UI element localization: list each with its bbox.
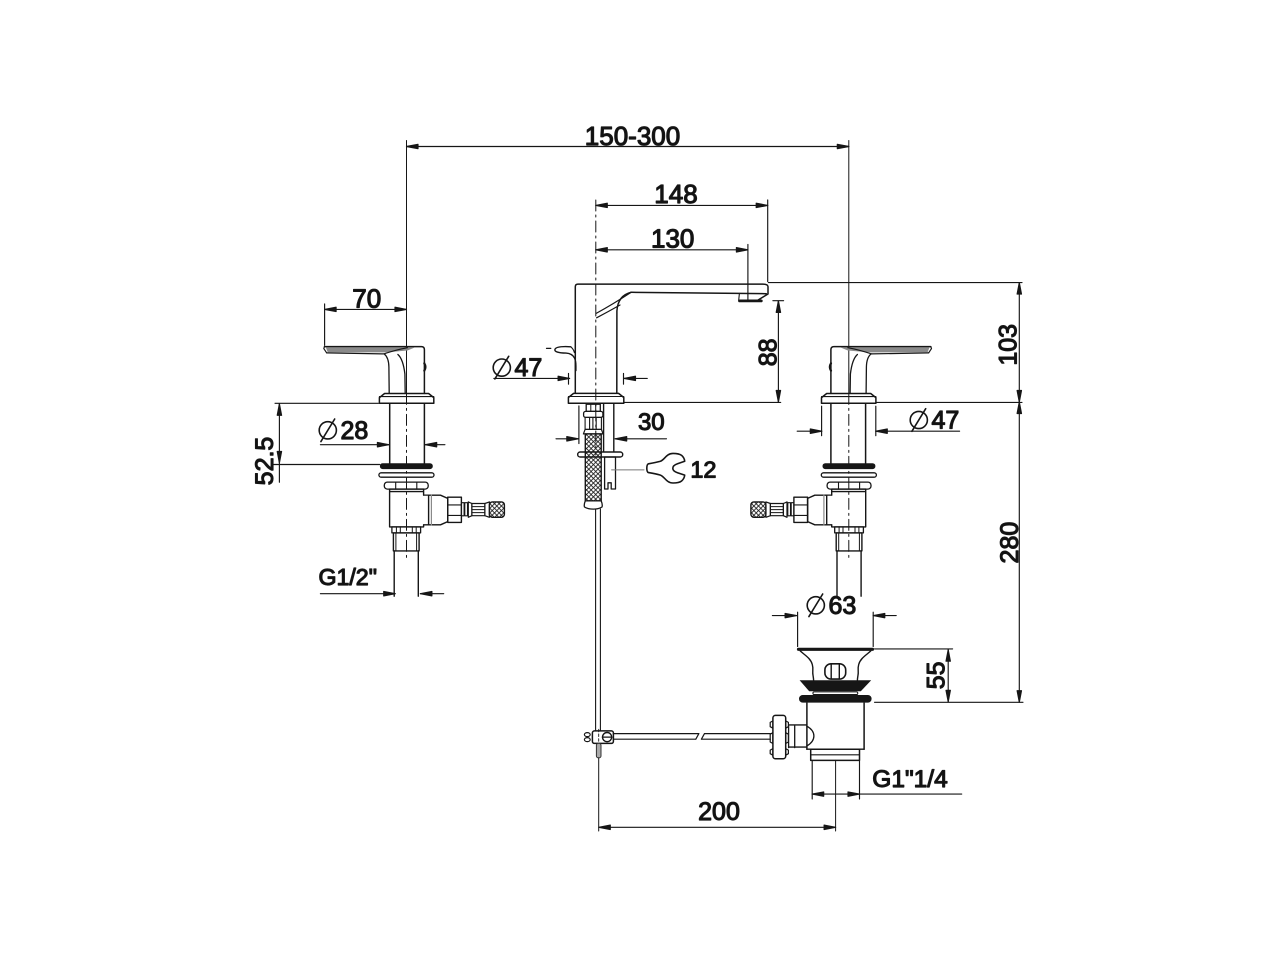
svg-text:28: 28 xyxy=(341,417,369,445)
hose hex adapter xyxy=(448,497,462,522)
drain rod collar xyxy=(789,726,795,748)
spout fixing stud right xyxy=(613,404,615,452)
hose flare left xyxy=(468,502,472,517)
deck reference line right of right valve xyxy=(876,401,1022,403)
valve fastening nut xyxy=(384,482,428,489)
drain tail centerline xyxy=(835,760,837,831)
dimension 200 xyxy=(599,826,836,828)
svg-text:47: 47 xyxy=(932,407,960,435)
hose flare right xyxy=(485,502,490,517)
spout hose bottom flare xyxy=(584,501,602,509)
valve washer xyxy=(379,473,434,477)
spout hose crimp flare xyxy=(583,429,603,434)
dimensions xyxy=(251,121,1024,830)
dimension 55 xyxy=(947,650,949,702)
dimension diameter 63 (drain flange) xyxy=(772,615,796,617)
svg-text:150-300: 150-300 xyxy=(585,121,680,151)
spout hose crimp collar xyxy=(584,411,603,417)
valve o-ring seal xyxy=(380,463,433,469)
handle neck front curve xyxy=(384,354,389,393)
handle centerline / extension line xyxy=(406,141,408,394)
top reference line to 103 xyxy=(768,282,1022,284)
spout mixer lever tab xyxy=(555,347,576,371)
spout lever tab center dash xyxy=(547,347,551,349)
spout braided hose xyxy=(585,434,601,501)
spout hose compression olive xyxy=(586,404,600,411)
drain bottom step xyxy=(807,748,864,750)
spout body outline xyxy=(575,284,768,393)
dimension 30 xyxy=(556,438,578,440)
clamp screw xyxy=(603,733,612,742)
drain pull rod (vertical) xyxy=(596,509,601,731)
svg-text:130: 130 xyxy=(651,223,694,253)
spout arm underside xyxy=(631,292,766,293)
wrench symbol 12 xyxy=(612,469,644,471)
spout hose crimp body xyxy=(585,417,601,429)
spout base flange xyxy=(568,393,623,403)
drain top flange (bold) xyxy=(799,648,873,651)
valve escutcheon flange xyxy=(379,394,433,404)
drain G1-1/4 threaded collar xyxy=(811,749,860,760)
drain rod wing nut xyxy=(773,715,786,758)
svg-text:280: 280 xyxy=(996,522,1024,564)
dimension 52.5 xyxy=(278,404,280,483)
svg-text:63: 63 xyxy=(829,592,857,620)
valve side port shoulder xyxy=(424,495,429,525)
drain side port xyxy=(789,725,807,747)
pop-up waste drain assembly xyxy=(584,649,872,831)
svg-text:30: 30 xyxy=(638,409,665,436)
drain body xyxy=(807,703,864,749)
extension line below rod xyxy=(598,758,600,831)
horizontal pull rod left segment xyxy=(613,734,699,740)
right side valve (mirrored copy) xyxy=(751,141,932,597)
spout flange bevel line xyxy=(568,396,623,398)
spout lever tab inner line xyxy=(571,347,575,353)
pull rod clamp block xyxy=(592,731,613,744)
left side valve (cold/hot handle) xyxy=(324,141,505,597)
handle blade tip chamfer xyxy=(324,347,327,353)
drain funnel right side xyxy=(857,651,870,680)
horizontal pull rod right segment xyxy=(701,734,770,740)
handle blade shaded band xyxy=(326,347,415,352)
hose ribs xyxy=(461,503,464,516)
svg-text:70: 70 xyxy=(352,284,381,314)
svg-text:148: 148 xyxy=(654,179,697,209)
svg-text:200: 200 xyxy=(698,798,740,826)
dimension 280 xyxy=(1018,402,1020,702)
svg-text:52.5: 52.5 xyxy=(251,437,279,486)
dimension 103 xyxy=(1018,283,1020,402)
drain funnel left side xyxy=(800,651,813,680)
handle blade hidden top curve xyxy=(384,348,408,354)
svg-text:G1"1/4: G1"1/4 xyxy=(872,766,947,793)
clamp butterfly xyxy=(584,733,590,737)
dimension G1-1/4 xyxy=(812,793,859,795)
handle blade bottom edge xyxy=(327,353,384,354)
valve flange bevel line xyxy=(379,396,433,398)
spout aerator outlet face xyxy=(740,299,762,302)
dimension diameter 47 (spout base) xyxy=(494,377,570,379)
dimension 148 xyxy=(596,204,768,206)
valve bottom collar xyxy=(392,527,421,533)
dimension G1/2 xyxy=(320,593,395,595)
dimension 70 xyxy=(325,308,407,310)
drain port inner arc xyxy=(807,726,814,746)
valve body xyxy=(390,489,424,527)
dimension 88 xyxy=(777,301,779,402)
dimension 130 xyxy=(596,249,748,251)
dimension diameter 47 (right valve) xyxy=(797,430,822,432)
dimension 150-300 xyxy=(407,146,849,148)
hose compression nut xyxy=(429,495,448,525)
svg-text:55: 55 xyxy=(922,661,950,689)
valve tail tube xyxy=(394,551,418,596)
spout (center mixer outlet) xyxy=(547,200,769,731)
drain rubber washer band (black) xyxy=(799,695,872,703)
svg-text:88: 88 xyxy=(754,338,782,366)
deck reference line left of 88 xyxy=(624,401,781,403)
drain plug knob xyxy=(825,664,846,679)
drain seal cone (black) xyxy=(800,680,872,691)
svg-text:103: 103 xyxy=(995,324,1023,366)
dimension diameter 28 (left valve column) xyxy=(320,444,389,446)
spout horseshoe washer xyxy=(578,452,623,457)
rod lower gray tip xyxy=(596,743,601,758)
spout fixing stud left xyxy=(603,404,605,452)
drain plug lip xyxy=(813,692,858,695)
spout body right edge with fillet xyxy=(617,292,631,393)
handle blade top xyxy=(325,347,425,394)
spout mounting bracket nut xyxy=(605,457,616,489)
svg-text:47: 47 xyxy=(515,354,543,382)
svg-text:G1/2": G1/2" xyxy=(318,564,377,590)
spout centerline xyxy=(595,200,597,455)
handle set screw xyxy=(424,363,425,370)
spout outlet left step xyxy=(738,293,741,300)
svg-text:12: 12 xyxy=(690,456,716,482)
handle neck back curve xyxy=(398,355,405,394)
valve column xyxy=(390,403,425,463)
hose striped sleeve xyxy=(472,504,485,516)
spout sculpt line 2 xyxy=(597,305,620,318)
clamp center dashed line xyxy=(598,729,600,745)
spout sculpt line 1 xyxy=(596,292,631,313)
hose braided stub xyxy=(489,502,504,517)
valve G1/2 thread xyxy=(393,533,419,551)
